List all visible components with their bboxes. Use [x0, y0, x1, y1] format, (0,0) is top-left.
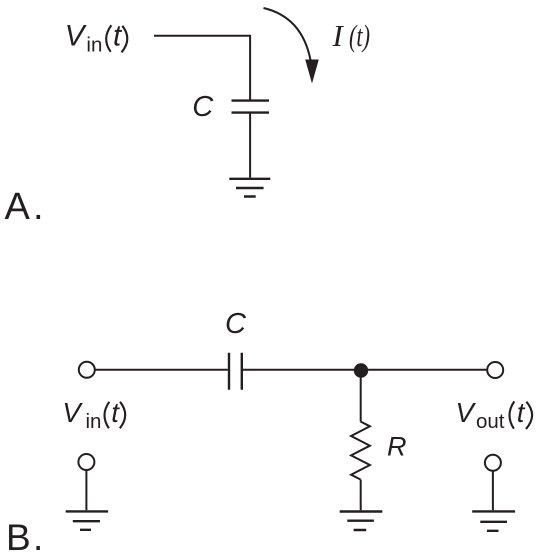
ground (below resistor, circuit B) — [340, 512, 383, 531]
label Vin(t) (input voltage, circuit A) — [65, 20, 128, 57]
svg-text:.: . — [33, 517, 43, 558]
label Vin(t) (circuit B) — [62, 397, 125, 433]
svg-text:I: I — [332, 18, 345, 53]
junction node (capacitor/resistor/output, circuit B) — [354, 363, 368, 377]
output terminal (open circle, circuit B) — [487, 362, 503, 378]
input reference terminal (open circle, circuit B) — [78, 454, 94, 470]
svg-text:R: R — [387, 431, 407, 461]
wire resistor to ground (circuit B) — [360, 480, 362, 511]
svg-text:t: t — [111, 397, 120, 428]
wire from Vin to capacitor top plate (circuit A) — [154, 36, 250, 100]
label A. (panel letter) — [5, 186, 44, 228]
svg-text:A: A — [5, 186, 31, 228]
svg-text:V: V — [456, 397, 477, 428]
capacitor C (circuit B) — [229, 353, 242, 390]
ground (input reference, circuit B) — [66, 511, 108, 529]
svg-text:(t): (t) — [349, 18, 370, 53]
resistor R (circuit B) — [351, 422, 370, 480]
value label R (circuit B) — [387, 431, 407, 461]
wire input terminal to capacitor (circuit B) — [95, 369, 228, 371]
wire output reference terminal to ground (circuit B) — [492, 471, 494, 510]
svg-text:out: out — [476, 410, 505, 433]
wire capacitor to output terminal (circuit B) — [243, 369, 487, 371]
svg-text:V: V — [62, 397, 83, 428]
label B. (panel letter) — [6, 517, 43, 558]
ground (output reference, circuit B) — [472, 511, 515, 530]
wire capacitor to ground (circuit A) — [249, 113, 251, 178]
svg-text:in: in — [86, 33, 102, 56]
label I(t) (current, circuit A) — [332, 18, 371, 53]
value label C (circuit B) — [225, 308, 247, 340]
svg-text:B: B — [6, 517, 31, 558]
svg-text:C: C — [225, 308, 247, 340]
input terminal (open circle, circuit B) — [79, 362, 95, 378]
svg-text:in: in — [86, 410, 102, 433]
svg-text:V: V — [65, 20, 87, 53]
svg-text:.: . — [33, 186, 44, 228]
svg-text:C: C — [192, 91, 214, 123]
value label C (circuit A) — [192, 91, 214, 123]
svg-text:t: t — [113, 20, 123, 53]
wire input reference terminal to ground (circuit B) — [85, 470, 87, 510]
output reference terminal (open circle, circuit B) — [485, 455, 501, 471]
svg-text:t: t — [517, 397, 526, 428]
ground (circuit A) — [229, 179, 270, 197]
current arrow I(t) (circuit A) — [264, 8, 319, 84]
wire junction to resistor (circuit B) — [360, 371, 362, 422]
label Vout(t) (circuit B) — [456, 397, 533, 433]
capacitor C (circuit A) — [232, 101, 270, 113]
